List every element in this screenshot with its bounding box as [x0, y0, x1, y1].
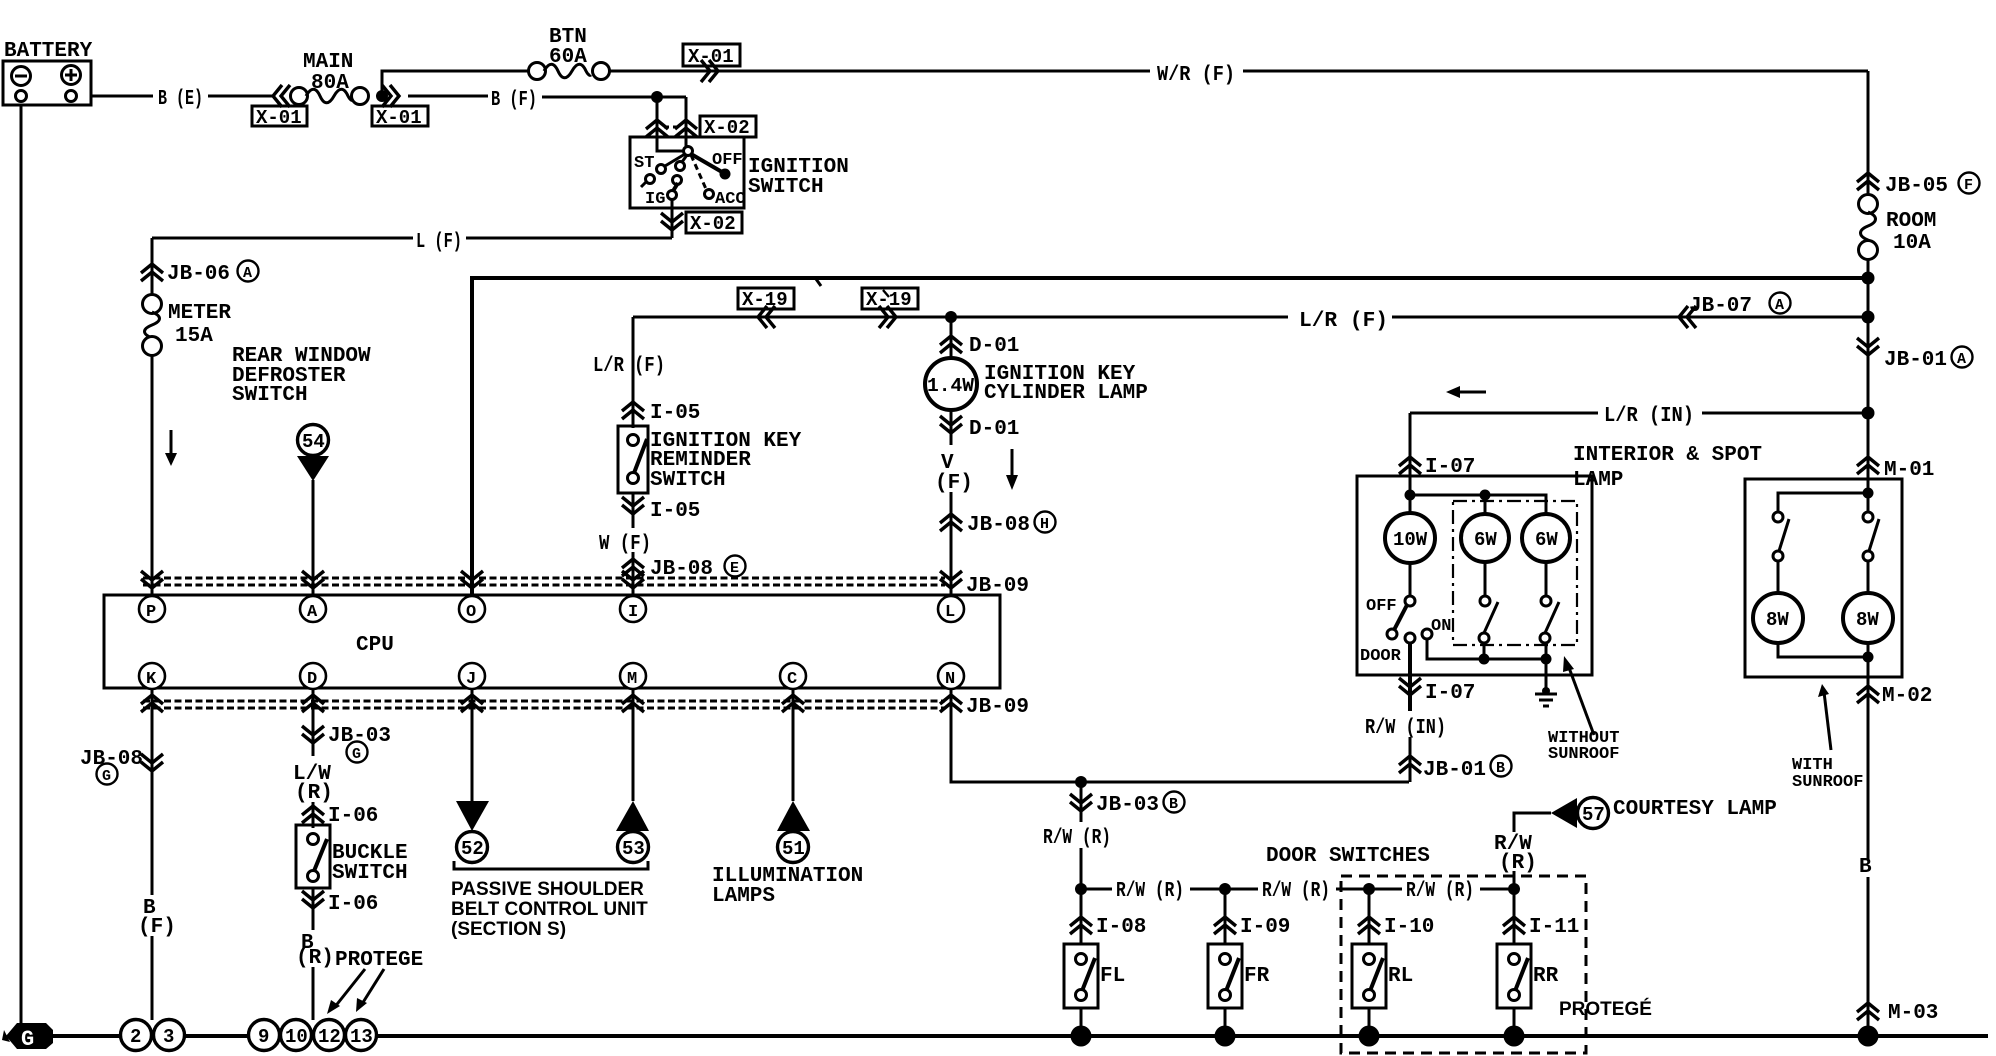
- svg-text:52: 52: [461, 838, 484, 860]
- svg-text:O: O: [466, 603, 476, 622]
- fuse BTN 60A: [529, 26, 610, 80]
- svg-text:PROTEGE: PROTEGE: [335, 949, 423, 972]
- svg-text:10W: 10W: [1393, 529, 1428, 551]
- connector JB-03 G chevrons: [302, 726, 324, 743]
- svg-text:JB-03: JB-03: [328, 725, 391, 748]
- junction dot at ignition feed: [651, 91, 663, 103]
- node 52 passive belt control: [456, 801, 489, 831]
- svg-text:(R): (R): [1499, 852, 1537, 875]
- junction dot after MAIN fuse: [376, 90, 388, 102]
- 6W lamp switches: [1484, 562, 1487, 596]
- wire M-01 down into sunroof box: [1867, 413, 1870, 493]
- ignition switch U1: [630, 137, 746, 209]
- CPU pin N: [938, 663, 964, 689]
- connector JB-08 G chevrons: [141, 754, 163, 771]
- svg-text:SWITCH: SWITCH: [232, 384, 308, 407]
- connector I-07 chevrons lower: [1399, 678, 1421, 695]
- CPU pin P: [139, 596, 165, 622]
- svg-text:JB-03: JB-03: [1096, 794, 1159, 817]
- svg-text:FL: FL: [1100, 965, 1125, 988]
- wire L/R(IN) row: [1410, 412, 1598, 415]
- junction dots on return wire: [1479, 654, 1490, 665]
- svg-text:I-08: I-08: [1096, 916, 1146, 939]
- svg-text:RR: RR: [1533, 965, 1559, 988]
- connector JB-07 A chevron: [1679, 306, 1696, 328]
- svg-text:INTERIOR & SPOT: INTERIOR & SPOT: [1573, 444, 1762, 467]
- svg-text:(F): (F): [935, 472, 973, 495]
- svg-text:DOOR SWITCHES: DOOR SWITCHES: [1266, 845, 1430, 868]
- wire right vertical main feed: [1867, 71, 1870, 195]
- wire L/R(F) corner down to reminder switch: [632, 317, 635, 428]
- door switch FL: [1064, 889, 1146, 1030]
- svg-text:(SECTION S): (SECTION S): [451, 919, 566, 940]
- svg-text:I-11: I-11: [1529, 916, 1579, 939]
- svg-text:ROOM: ROOM: [1886, 210, 1936, 233]
- connector I-06 chevrons lower: [302, 891, 324, 908]
- svg-text:OFF: OFF: [712, 151, 743, 170]
- svg-text:R/W (R): R/W (R): [1116, 880, 1184, 903]
- current direction arrow: [1011, 449, 1014, 477]
- label X-02 upper: [700, 116, 756, 137]
- svg-text:G: G: [102, 768, 111, 785]
- connector X-01 chevron left: [273, 85, 290, 107]
- ignition switch IG contact: [668, 191, 677, 200]
- svg-text:A: A: [243, 265, 252, 282]
- wire thick feed line to CPU pin O: [472, 278, 1868, 597]
- ignition switch IG lever: [673, 183, 678, 191]
- svg-text:SWITCH: SWITCH: [650, 469, 726, 492]
- connector M-02 chevrons: [1857, 686, 1879, 703]
- wire to left 8W lamp: [1777, 561, 1780, 593]
- svg-text:SUNROOF: SUNROOF: [1792, 773, 1863, 792]
- svg-text:I-10: I-10: [1384, 916, 1434, 939]
- interior lamp WITH SUNROOF box: [1745, 479, 1902, 677]
- svg-text:L/R (IN): L/R (IN): [1604, 405, 1694, 428]
- svg-text:12: 12: [318, 1026, 341, 1048]
- svg-text:H: H: [1040, 516, 1049, 533]
- junction dot RL column: [1363, 883, 1375, 895]
- svg-text:PROTEGÉ: PROTEGÉ: [1559, 998, 1652, 1020]
- dash-dot box around 6W lamps: [1453, 501, 1577, 645]
- svg-text:I-06: I-06: [328, 893, 378, 916]
- svg-text:8W: 8W: [1856, 609, 1879, 631]
- svg-text:I-07: I-07: [1425, 682, 1475, 705]
- ground symbol G: [6, 1023, 53, 1049]
- svg-text:10: 10: [285, 1026, 308, 1048]
- wire to JB-01 B: [1409, 737, 1412, 782]
- svg-text:JB-07: JB-07: [1689, 295, 1752, 318]
- svg-text:M: M: [627, 670, 637, 689]
- ground node 13: [346, 1020, 377, 1051]
- svg-text:6W: 6W: [1535, 529, 1558, 551]
- svg-text:J: J: [466, 670, 476, 689]
- svg-text:C: C: [787, 670, 797, 689]
- svg-text:B (E): B (E): [158, 88, 203, 111]
- battery: [3, 40, 93, 105]
- CPU box: [104, 595, 1000, 688]
- svg-text:53: 53: [622, 838, 645, 860]
- interior lamp OFF/DOOR/ON switch: [1409, 563, 1412, 596]
- svg-text:LAMP: LAMP: [1573, 469, 1623, 492]
- connector I-07 chevrons upper: [1399, 457, 1421, 474]
- svg-text:6W: 6W: [1474, 529, 1497, 551]
- svg-text:X-01: X-01: [256, 107, 302, 129]
- wire left lamp to bottom junction: [1778, 643, 1868, 657]
- svg-text:M-02: M-02: [1882, 685, 1932, 708]
- wire ON contact to lamp returns and ground: [1427, 639, 1546, 692]
- wire cylinder lamp column: [950, 317, 953, 358]
- svg-text:F: F: [1964, 177, 1973, 194]
- svg-text:K: K: [146, 670, 157, 689]
- wire CPU pin C to node 51: [792, 689, 795, 801]
- svg-text:JB-01: JB-01: [1423, 759, 1486, 782]
- svg-text:L: L: [945, 603, 955, 622]
- svg-text:B: B: [1859, 856, 1872, 879]
- svg-text:METER: METER: [168, 302, 231, 325]
- fuse METER 15A: [143, 295, 232, 356]
- svg-text:2: 2: [130, 1026, 141, 1048]
- svg-text:CPU: CPU: [356, 634, 394, 657]
- connector JB-05 chevrons: [1857, 173, 1879, 190]
- svg-text:X-02: X-02: [690, 213, 736, 235]
- svg-text:G: G: [21, 1027, 34, 1052]
- wire R/W (R) row to RR: [1369, 888, 1402, 891]
- lamp 10W: [1409, 495, 1412, 513]
- ground symbol interior lamp: [1542, 687, 1550, 695]
- wire DOOR contact down out of box: [1408, 643, 1412, 711]
- node 51 illumination lamps: [777, 801, 810, 831]
- svg-text:9: 9: [258, 1026, 269, 1048]
- connector JB-01 A chevrons: [1857, 338, 1879, 355]
- svg-text:R/W (R): R/W (R): [1043, 827, 1111, 850]
- junction dot at L/R(F) line: [1862, 311, 1875, 324]
- svg-text:R/W (R): R/W (R): [1406, 880, 1474, 903]
- ignition switch ACC contact: [705, 190, 714, 199]
- ignition switch ST contact: [646, 175, 655, 184]
- door switch RR: [1497, 889, 1579, 1030]
- wire L(F) from ignition switch to meter fuse column: [466, 237, 672, 240]
- connector JB-01 B chevrons: [1399, 756, 1421, 773]
- current direction arrow left: [1458, 391, 1486, 394]
- CPU pin D: [300, 663, 326, 689]
- stray scan tick 1: [816, 279, 821, 286]
- junction dot JB-03 branch: [1075, 776, 1087, 788]
- bracket under nodes 52 53: [454, 861, 648, 869]
- wire CPU pin M to node 53: [632, 689, 635, 801]
- CPU pin A: [300, 596, 326, 622]
- CPU pin K: [139, 663, 165, 689]
- stray scan tick 2: [883, 290, 889, 297]
- junction dot bottom of sunroof box: [1863, 652, 1874, 663]
- connector I-05 chevrons upper: [622, 402, 644, 419]
- ignition switch pivot contact: [684, 147, 693, 156]
- wire CPU pin J to node 52: [471, 689, 474, 801]
- junction dot lamp feed: [1405, 490, 1416, 501]
- connector JB-09 dashed bus above CPU: [143, 577, 945, 580]
- CPU pin J: [459, 663, 485, 689]
- svg-text:PASSIVE SHOULDER: PASSIVE SHOULDER: [451, 879, 644, 900]
- wire reminder switch to CPU pin I: [632, 493, 635, 528]
- wire to right 8W lamp: [1867, 561, 1870, 593]
- JB-09 chevrons on bottom pin wires: [141, 695, 163, 712]
- svg-text:N: N: [945, 670, 955, 689]
- svg-text:W (F): W (F): [599, 533, 651, 556]
- lamp 8W right: [1843, 593, 1893, 643]
- connector X-02 chevrons below ignition switch: [661, 213, 683, 230]
- label X-01: [372, 106, 428, 126]
- svg-text:L/R (F): L/R (F): [593, 355, 665, 378]
- ignition switch dashed lever to ACC: [691, 155, 706, 189]
- label X-01 top: [683, 44, 740, 66]
- svg-text:15A: 15A: [175, 325, 213, 348]
- svg-text:E: E: [730, 560, 739, 577]
- svg-text:54: 54: [302, 431, 325, 453]
- fuse ROOM 10A: [1859, 195, 1937, 260]
- battery post circles: [16, 91, 27, 102]
- node 57 courtesy lamp: [1514, 813, 1551, 832]
- svg-text:JB-06: JB-06: [167, 263, 230, 286]
- svg-text:P: P: [146, 603, 156, 622]
- junction dot X-19 line to cylinder lamp: [945, 311, 957, 323]
- connector I-05 chevrons lower: [622, 497, 644, 514]
- svg-text:ACC: ACC: [715, 190, 746, 209]
- svg-text:SWITCH: SWITCH: [332, 862, 408, 885]
- wire R/W (R) row to RL: [1225, 888, 1258, 891]
- svg-text:B: B: [1496, 760, 1505, 777]
- connector X-01 chevron on W/R wire: [701, 60, 718, 82]
- ground bus line: [53, 1034, 120, 1038]
- svg-text:I-05: I-05: [650, 500, 700, 523]
- door switch RL: [1352, 889, 1434, 1030]
- wire L/R(F) row: [633, 316, 1288, 319]
- svg-text:10A: 10A: [1893, 232, 1931, 255]
- fuse MAIN 80A: [291, 51, 369, 105]
- label X-02 lower: [686, 212, 742, 233]
- connector JB-08 E chevrons: [622, 559, 644, 576]
- ground node 9: [249, 1020, 280, 1051]
- PROTEGE dashed box: [1341, 876, 1586, 1053]
- wire top branch to left sunroof switch: [1778, 493, 1868, 512]
- svg-text:JB-05: JB-05: [1885, 175, 1948, 198]
- connector I-06 chevrons upper: [302, 806, 324, 823]
- wire buckle switch down: [312, 888, 315, 930]
- CPU pin O: [459, 596, 485, 622]
- buckle switch: [296, 825, 330, 888]
- wire top distribution: [1410, 495, 1546, 513]
- svg-text:I: I: [628, 603, 638, 622]
- connector JB-09 dashed bus below CPU: [143, 700, 945, 703]
- wire CPU pin N to interior lamp return: [951, 689, 1409, 782]
- svg-text:1.4W: 1.4W: [927, 375, 975, 397]
- connector X-19 chevron left: [758, 306, 775, 328]
- wire B(F) to ignition switch: [408, 95, 488, 98]
- svg-text:(F): (F): [138, 916, 176, 939]
- junction dot FL column: [1075, 883, 1087, 895]
- junction dot at thick feed line: [1862, 272, 1875, 285]
- JB-09 chevrons on top pin wires: [141, 571, 163, 588]
- junction dot FR column: [1219, 883, 1231, 895]
- svg-text:JB-08: JB-08: [967, 514, 1030, 537]
- node 54 rear window defroster switch: [298, 425, 329, 456]
- sunroof switch right: [1867, 498, 1870, 512]
- svg-text:R/W (R): R/W (R): [1262, 880, 1330, 903]
- interior and spot lamp box WITHOUT SUNROOF: [1357, 476, 1592, 675]
- connector M-01 chevrons: [1857, 457, 1879, 474]
- ignition key cylinder lamp 1.4W: [925, 358, 977, 410]
- svg-text:D: D: [307, 670, 317, 689]
- junction dot 6W branch: [1480, 490, 1491, 501]
- CPU pin M: [620, 663, 646, 689]
- svg-text:L (F): L (F): [416, 231, 462, 254]
- CPU pin L: [938, 596, 964, 622]
- svg-text:SUNROOF: SUNROOF: [1548, 745, 1619, 764]
- svg-text:I-06: I-06: [328, 805, 378, 828]
- svg-text:IG: IG: [645, 190, 665, 209]
- connector D-01 chevrons upper: [940, 336, 962, 353]
- wire fuse to junctions: [1867, 258, 1870, 456]
- ignition switch contact circles: [657, 165, 666, 174]
- ignition switch lever to OFF: [691, 154, 722, 172]
- ground junction dots door switches: [1071, 1026, 1092, 1047]
- wire meter fuse down to CPU pin P: [151, 354, 154, 597]
- junction dot top of sunroof box: [1863, 488, 1874, 499]
- label X-19 second: [862, 288, 918, 309]
- svg-text:I-09: I-09: [1240, 916, 1290, 939]
- svg-text:A: A: [1957, 351, 1966, 368]
- ignition key reminder switch: [618, 426, 648, 493]
- lamp 6W second: [1522, 514, 1570, 562]
- svg-text:R/W (IN): R/W (IN): [1365, 717, 1446, 740]
- wire up from MAIN fuse dot to BTN fuse line: [382, 71, 530, 96]
- wire W/R(F) top run: [608, 70, 1150, 73]
- label X-19 first: [738, 288, 794, 309]
- junction dot at L/R(IN): [1862, 407, 1875, 420]
- svg-text:ON: ON: [1431, 617, 1451, 636]
- label X-01: [252, 106, 307, 126]
- connector JB-06 chevrons: [141, 264, 163, 281]
- wire down to interior lamp box: [1409, 413, 1412, 495]
- door switch FR: [1208, 889, 1290, 1030]
- sunroof switch left: [1773, 512, 1783, 522]
- wire IG contact down: [671, 200, 674, 238]
- svg-text:8W: 8W: [1766, 609, 1789, 631]
- svg-text:X-01: X-01: [376, 107, 422, 129]
- svg-text:LAMPS: LAMPS: [712, 885, 775, 908]
- svg-text:B: B: [1169, 796, 1178, 813]
- ground junction dot M-03: [1858, 1026, 1879, 1047]
- ground node 12: [314, 1020, 345, 1051]
- battery minus terminal symbol: [12, 67, 31, 86]
- svg-text:L/R (F): L/R (F): [1299, 310, 1388, 333]
- connector X-02 chevrons above ignition switch: [646, 120, 668, 137]
- svg-text:I-05: I-05: [650, 402, 700, 425]
- lamp 6W first: [1461, 514, 1509, 562]
- CPU pin C: [780, 663, 806, 689]
- svg-text:A: A: [307, 603, 318, 622]
- node 53 passive belt control: [616, 801, 649, 831]
- wire CPU pin K to ground circles: [151, 689, 154, 895]
- ground node 10: [281, 1020, 312, 1051]
- svg-text:BELT CONTROL UNIT: BELT CONTROL UNIT: [451, 899, 648, 920]
- wire node 54 to CPU pin A: [312, 480, 315, 597]
- wire CPU pin D to buckle switch: [312, 689, 315, 756]
- wire lamp down: [950, 410, 953, 445]
- svg-text:M-03: M-03: [1888, 1002, 1938, 1025]
- connector D-01 chevrons lower: [940, 416, 962, 433]
- svg-text:D-01: D-01: [969, 335, 1019, 358]
- svg-text:RL: RL: [1388, 965, 1413, 988]
- connector X-01 chevron right: [382, 85, 399, 107]
- svg-text:57: 57: [1582, 804, 1605, 826]
- wire R/W (R) row to FR: [1081, 888, 1112, 891]
- connector JB-03 B chevrons: [1080, 782, 1083, 822]
- wire to CPU pin L: [950, 492, 953, 597]
- wire feeds down into ignition switch: [656, 97, 659, 150]
- svg-text:DOOR: DOOR: [1360, 647, 1402, 666]
- svg-text:CYLINDER LAMP: CYLINDER LAMP: [984, 382, 1148, 405]
- svg-text:FR: FR: [1244, 965, 1270, 988]
- svg-text:JB-01: JB-01: [1884, 349, 1947, 372]
- svg-text:13: 13: [350, 1026, 373, 1048]
- svg-text:JB-08: JB-08: [80, 748, 143, 771]
- svg-text:SWITCH: SWITCH: [748, 176, 824, 199]
- junction dot RR column: [1508, 883, 1520, 895]
- current direction arrow: [170, 430, 173, 455]
- wire battery negative to ground G: [20, 105, 23, 1024]
- ignition switch OFF contact dot: [720, 169, 731, 180]
- lamp 8W left: [1753, 593, 1803, 643]
- CPU pin I: [620, 596, 646, 622]
- ground node 3: [154, 1020, 185, 1051]
- svg-text:COURTESY LAMP: COURTESY LAMP: [1613, 798, 1777, 821]
- svg-text:W/R (F): W/R (F): [1157, 64, 1235, 87]
- svg-text:(R): (R): [295, 782, 333, 805]
- wire lamp bottom out of box: [1867, 643, 1870, 860]
- svg-text:ST: ST: [634, 154, 654, 173]
- connector M-03 chevrons: [1857, 1003, 1879, 1020]
- ignition switch wire to pivot: [657, 148, 684, 151]
- svg-text:JB-09: JB-09: [966, 696, 1029, 719]
- battery plus terminal symbol: [62, 66, 81, 85]
- svg-text:D-01: D-01: [969, 418, 1019, 441]
- connector JB-08 H chevrons: [940, 514, 962, 531]
- ignition switch thin lever lines: [665, 154, 685, 166]
- svg-text:OFF: OFF: [1366, 597, 1397, 616]
- ground node 2: [121, 1020, 152, 1051]
- wire B(E) battery to MAIN fuse: [91, 95, 153, 98]
- svg-text:51: 51: [782, 838, 805, 860]
- svg-text:G: G: [352, 746, 361, 763]
- connector X-19 chevron right: [879, 306, 896, 328]
- svg-text:3: 3: [163, 1026, 174, 1048]
- svg-text:B (F): B (F): [491, 89, 537, 112]
- svg-text:(R): (R): [296, 947, 334, 970]
- svg-text:MAIN: MAIN: [303, 51, 353, 74]
- svg-text:A: A: [1775, 297, 1784, 314]
